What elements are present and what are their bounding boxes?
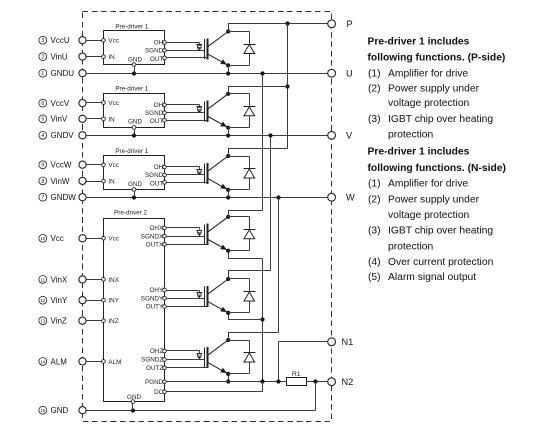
- wire OUT: [166, 182, 207, 184]
- svg-text:GND: GND: [51, 406, 69, 415]
- svg-text:8: 8: [41, 179, 44, 185]
- terminal pin 3 VccU: [39, 36, 86, 45]
- node Q1 collector: [226, 24, 230, 34]
- svg-text:10: 10: [40, 236, 45, 241]
- node Q3 collector: [226, 148, 230, 158]
- svg-text:2: 2: [41, 55, 44, 61]
- terminal V: [328, 131, 353, 141]
- svg-text:OUT: OUT: [150, 180, 163, 187]
- wire VinX stub: [86, 279, 102, 281]
- wire W collector top: [228, 148, 287, 150]
- svg-text:15: 15: [40, 408, 45, 413]
- svg-text:IN: IN: [108, 179, 115, 186]
- svg-text:SGNDY: SGNDY: [141, 295, 164, 302]
- svg-text:VinU: VinU: [51, 53, 68, 62]
- node Q5 collector: [226, 270, 230, 281]
- wire OH gate drive: [166, 43, 199, 45]
- pre-driver 1 block (W phase): [102, 148, 167, 192]
- wire OUTZ: [166, 367, 207, 369]
- svg-text:Pre-driver 1 includes: Pre-driver 1 includes: [368, 36, 470, 47]
- svg-text:ALM: ALM: [51, 357, 68, 366]
- wire Y collector top: [228, 270, 270, 272]
- gate clamp zener Q2: [197, 107, 202, 113]
- node Q6 collector: [226, 332, 230, 342]
- svg-text:DC: DC: [154, 389, 164, 396]
- svg-text:GND: GND: [128, 56, 142, 63]
- svg-text:9: 9: [41, 163, 44, 169]
- terminal pin 1 GNDU: [39, 69, 86, 78]
- transistor Q1 (IGBT U): [205, 32, 229, 66]
- svg-text:N1: N1: [342, 337, 354, 347]
- svg-text:12: 12: [40, 298, 45, 303]
- svg-text:Amplifier for drive: Amplifier for drive: [388, 178, 468, 189]
- wire pre-driver 2 GND: [132, 403, 134, 410]
- wire VccU stub: [86, 40, 102, 42]
- transistor Q5 (IGBT Y): [205, 279, 229, 313]
- wire VccW stub: [86, 164, 102, 166]
- gate clamp zener Q3: [197, 170, 202, 175]
- transistor Q4 (IGBT X): [205, 217, 229, 251]
- wire W output line: [86, 195, 328, 199]
- wire ALM stub: [86, 361, 102, 363]
- svg-text:6: 6: [41, 101, 44, 107]
- svg-text:IGBT chip over heating: IGBT chip over heating: [388, 225, 493, 236]
- svg-text:OUTY: OUTY: [146, 304, 164, 311]
- wire GND line: [86, 382, 315, 413]
- svg-text:Vcc: Vcc: [108, 236, 119, 243]
- svg-text:(3): (3): [368, 114, 381, 125]
- svg-text:Pre-driver 1: Pre-driver 1: [115, 148, 148, 155]
- svg-text:OUTX: OUTX: [146, 242, 164, 249]
- wire SGND: [166, 112, 204, 114]
- terminal pin 14 ALM: [39, 357, 86, 366]
- svg-text:GNDV: GNDV: [51, 131, 75, 140]
- node Q6 emitter: [226, 372, 230, 376]
- svg-text:Vcc: Vcc: [108, 162, 119, 169]
- resistor R1: [287, 371, 307, 386]
- node Q2 emitter: [226, 126, 230, 130]
- terminal pin 15 GND: [39, 406, 86, 415]
- svg-text:1: 1: [41, 71, 44, 77]
- wire Z collector top: [228, 332, 278, 334]
- svg-text:voltage protection: voltage protection: [388, 210, 470, 221]
- svg-text:Pre-driver 1: Pre-driver 1: [115, 23, 148, 30]
- wire Q3 emitter to output: [228, 190, 230, 197]
- svg-text:(3): (3): [368, 225, 381, 236]
- svg-text:5: 5: [41, 117, 44, 123]
- svg-text:Vcc: Vcc: [51, 234, 64, 243]
- transistor Q3 (IGBT W): [205, 156, 229, 190]
- pre-driver 1 block (V phase): [102, 86, 167, 130]
- svg-text:INZ: INZ: [108, 318, 118, 325]
- svg-text:(5): (5): [368, 272, 381, 283]
- wire X emitter to N node: [228, 251, 264, 382]
- freewheel diode D3: [228, 157, 255, 190]
- svg-text:IN: IN: [108, 116, 115, 123]
- terminal pin 10 Vcc: [39, 234, 86, 243]
- svg-text:Pre-driver 1 includes: Pre-driver 1 includes: [368, 146, 470, 157]
- terminal pin 2 VinU: [39, 53, 86, 62]
- wire OHY gate drive: [166, 291, 199, 292]
- wire SGND: [166, 174, 204, 176]
- svg-text:7: 7: [41, 195, 44, 201]
- svg-text:Vcc: Vcc: [108, 100, 119, 107]
- svg-text:OUT: OUT: [150, 118, 163, 125]
- node Q1 emitter: [226, 63, 230, 67]
- wire VinZ stub: [86, 320, 102, 322]
- node Q4 collector: [226, 210, 230, 219]
- svg-text:VinY: VinY: [51, 296, 68, 305]
- wire P bus vertical: [285, 24, 289, 149]
- wire VinU stub: [86, 56, 102, 58]
- svg-text:Over current protection: Over current protection: [388, 257, 494, 268]
- svg-text:OUTZ: OUTZ: [146, 365, 163, 372]
- node Q2 collector: [226, 87, 230, 96]
- wire P bus (top): [228, 21, 328, 25]
- wire SGNDX: [166, 236, 204, 238]
- svg-text:following functions. (P-side): following functions. (P-side): [368, 52, 506, 63]
- svg-text:SGNDZ: SGNDZ: [141, 357, 163, 364]
- wire Vcc stub: [86, 238, 102, 240]
- wire Q2 emitter to output: [228, 128, 230, 136]
- terminal N1: [328, 337, 354, 347]
- svg-text:(2): (2): [368, 194, 381, 205]
- terminal pin 7 GNDW: [39, 193, 86, 202]
- svg-text:P: P: [347, 19, 353, 29]
- svg-text:Power supply under: Power supply under: [388, 194, 480, 205]
- wire X collector top: [228, 210, 262, 212]
- wire driver GND to U line: [134, 67, 136, 74]
- terminal U: [328, 68, 353, 78]
- wire OH gate drive: [166, 167, 199, 169]
- wire driver GND to V line: [134, 129, 136, 136]
- wire DC sense: [166, 382, 262, 392]
- node Q3 emitter: [226, 188, 230, 192]
- svg-text:protection: protection: [388, 129, 433, 140]
- svg-text:SGNDX: SGNDX: [141, 233, 164, 240]
- terminal pin 9 VccW: [39, 161, 86, 170]
- terminal pin 11 VinX: [39, 275, 86, 284]
- annotation text block: [368, 36, 506, 283]
- svg-text:VccW: VccW: [51, 161, 72, 170]
- svg-text:Vcc: Vcc: [108, 38, 119, 45]
- wire Z emitter to PGND line: [226, 374, 230, 384]
- svg-text:protection: protection: [388, 241, 433, 252]
- wire SGND: [166, 50, 204, 52]
- wire W to Z collector: [278, 198, 280, 333]
- wire OUTX: [166, 244, 207, 246]
- wire V output line: [86, 133, 328, 137]
- svg-text:13: 13: [40, 319, 45, 324]
- svg-text:W: W: [346, 192, 355, 202]
- svg-text:OHZ: OHZ: [150, 348, 163, 355]
- svg-text:R1: R1: [292, 371, 301, 378]
- svg-text:3: 3: [41, 38, 44, 44]
- freewheel diode D1: [228, 32, 255, 66]
- transistor Q6 (IGBT Z): [205, 340, 229, 374]
- svg-text:IN: IN: [108, 54, 115, 61]
- gate clamp zener Q4: [197, 231, 202, 237]
- svg-text:11: 11: [41, 277, 46, 282]
- gate clamp zener Q5: [197, 293, 202, 299]
- svg-text:GND: GND: [128, 119, 142, 126]
- wire driver GND to W line: [134, 191, 136, 197]
- pre-driver 2 block (N-side): [102, 209, 167, 403]
- wire VinY stub: [86, 300, 102, 302]
- svg-text:U: U: [346, 68, 353, 78]
- gate clamp zener Q6: [197, 354, 202, 360]
- pre-driver 1 block (U phase): [102, 23, 167, 66]
- svg-text:Power supply under: Power supply under: [388, 84, 480, 95]
- svg-text:(2): (2): [368, 84, 381, 95]
- svg-text:GNDW: GNDW: [51, 193, 77, 202]
- svg-text:Amplifier for drive: Amplifier for drive: [388, 68, 468, 79]
- terminal pin 4 GNDV: [39, 131, 86, 140]
- svg-text:GND: GND: [128, 181, 142, 188]
- wire U to X collector: [262, 74, 264, 211]
- svg-text:V: V: [346, 131, 353, 141]
- svg-text:following functions. (N-side): following functions. (N-side): [368, 163, 506, 174]
- wire OHX gate drive: [166, 228, 199, 230]
- wire V collector top: [228, 86, 287, 88]
- svg-text:OUT: OUT: [150, 56, 163, 63]
- wire V to Y collector: [270, 136, 272, 271]
- wire SGNDZ: [166, 359, 204, 361]
- freewheel diode D4: [228, 217, 255, 251]
- wire PGND / shunt line: [166, 379, 286, 383]
- wire OUTY: [166, 306, 207, 308]
- svg-text:SGND: SGND: [145, 172, 164, 179]
- svg-text:VccU: VccU: [51, 36, 70, 45]
- svg-text:(1): (1): [368, 178, 381, 189]
- terminal pin 5 VinV: [39, 115, 86, 124]
- node Q4 emitter: [226, 249, 230, 253]
- svg-text:OH: OH: [154, 102, 164, 109]
- svg-text:Alarm signal output: Alarm signal output: [388, 272, 476, 283]
- wire VinV stub: [86, 118, 102, 120]
- wire U output line: [86, 71, 328, 75]
- wire OUT: [166, 120, 207, 122]
- svg-text:(4): (4): [368, 257, 381, 268]
- svg-text:OH: OH: [154, 164, 164, 171]
- wire OHZ gate drive: [166, 351, 199, 353]
- svg-text:INX: INX: [108, 277, 119, 284]
- wire VinW stub: [86, 181, 102, 183]
- svg-text:IGBT chip over heating: IGBT chip over heating: [388, 114, 493, 125]
- freewheel diode D5: [228, 279, 255, 313]
- wire Q1 emitter to output: [228, 65, 230, 73]
- svg-text:VinX: VinX: [51, 275, 68, 284]
- svg-text:N2: N2: [342, 377, 354, 387]
- svg-text:Pre-driver 1: Pre-driver 1: [115, 86, 148, 93]
- freewheel diode D6: [228, 341, 255, 374]
- terminal pin 12 VinY: [39, 296, 86, 305]
- svg-text:(1): (1): [368, 68, 381, 79]
- svg-text:INY: INY: [108, 298, 119, 305]
- svg-text:14: 14: [40, 359, 45, 364]
- terminal pin 8 VinW: [39, 177, 86, 186]
- wire R1 to N2: [307, 379, 329, 383]
- terminal pin 13 VinZ: [39, 317, 86, 326]
- svg-text:ALM: ALM: [108, 359, 121, 366]
- terminal N2: [328, 377, 354, 387]
- svg-text:OH: OH: [154, 40, 164, 47]
- terminal W: [328, 192, 355, 202]
- wire OH gate drive: [166, 105, 199, 107]
- wire N1: [279, 342, 329, 382]
- svg-text:Pre-driver 2: Pre-driver 2: [114, 209, 147, 216]
- svg-text:voltage protection: voltage protection: [388, 98, 470, 109]
- svg-text:PGND: PGND: [145, 379, 164, 386]
- svg-text:4: 4: [41, 133, 44, 139]
- node Q5 emitter: [226, 311, 230, 315]
- svg-text:VinV: VinV: [51, 115, 68, 124]
- svg-text:VinZ: VinZ: [51, 317, 67, 326]
- transistor Q2 (IGBT V): [205, 94, 229, 128]
- freewheel diode D2: [228, 94, 255, 128]
- svg-text:VccV: VccV: [51, 99, 70, 108]
- gate clamp zener Q1: [197, 45, 202, 51]
- terminal pin 6 VccV: [39, 99, 86, 108]
- svg-text:SGND: SGND: [145, 48, 164, 55]
- module outline (dashed border): [83, 12, 332, 422]
- svg-text:OHY: OHY: [150, 287, 164, 294]
- svg-text:OHX: OHX: [150, 225, 164, 232]
- wire VccV stub: [86, 102, 102, 104]
- svg-text:SGND: SGND: [145, 110, 164, 117]
- wire Y emitter join: [228, 313, 262, 320]
- wire SGNDY: [166, 298, 204, 300]
- svg-text:VinW: VinW: [51, 177, 70, 186]
- svg-text:GNDU: GNDU: [51, 69, 75, 78]
- terminal P: [328, 19, 353, 29]
- wire OUT: [166, 57, 207, 59]
